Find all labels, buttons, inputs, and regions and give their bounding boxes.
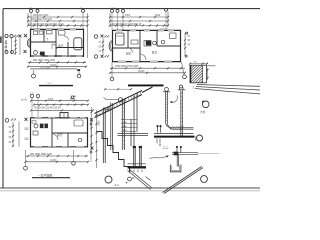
plan1 fixture cabinet — [59, 31, 66, 36]
stair outer dim diamonds — [90, 123, 92, 125]
svg-text:1500 2400 2700 150: 1500 2400 2700 150 — [31, 19, 53, 21]
plan1 fixture sink — [34, 31, 38, 35]
plan1 partition v1 — [43, 29, 45, 42]
plan2 right dim vertical — [184, 33, 186, 56]
plan2 right sq bubble bottom — [185, 55, 187, 57]
plan1 left axis bubbles row2 — [5, 51, 8, 54]
hatch detail right dim tick — [207, 68, 209, 80]
svg-text:3000: 3000 — [155, 15, 161, 17]
plan1 title end blob — [77, 69, 80, 71]
det1 slab top — [154, 133, 194, 135]
plan3 left dim verticals — [13, 122, 19, 148]
plan1 top dim line 3 — [28, 25, 88, 27]
plan2 bottom bubble left — [110, 77, 114, 81]
plan2 partition h2 — [157, 45, 181, 47]
plan2 bottom bubble right — [183, 75, 187, 79]
hatch detail rect — [190, 65, 207, 83]
stair detail tiny circle — [128, 177, 132, 181]
left edge blob — [0, 37, 2, 44]
svg-text:10200: 10200 — [50, 160, 57, 162]
det2 dark blob — [174, 152, 178, 155]
plan1 bottom bubble stems — [34, 70, 80, 74]
svg-text:10200: 10200 — [50, 65, 57, 67]
plan3 wall left — [30, 118, 32, 148]
svg-text:1:100: 1:100 — [46, 83, 52, 85]
det1 pipe pair A with bend — [166, 92, 194, 127]
plan3 bottom dim line1 — [26, 155, 89, 157]
svg-text:1-1: 1-1 — [115, 183, 120, 187]
fan line 2 — [196, 87, 260, 91]
svg-text:卄: 卄 — [159, 142, 162, 147]
plan2 dim edges — [110, 13, 168, 27]
plan1 left axis bubbles row1 — [5, 34, 8, 37]
plan2 fixture wc circle — [161, 40, 165, 44]
plan3 title underline — [32, 177, 70, 179]
stair mid lines — [118, 134, 149, 136]
plan3 dark unit — [40, 124, 43, 128]
stair wall colA2 — [111, 103, 113, 151]
plan1 left dim verticals — [12, 37, 21, 55]
fan line 1 — [197, 85, 260, 87]
plan1 title bar — [39, 85, 73, 87]
hatch detail left edge thick — [190, 65, 192, 83]
plan3 bottom-right bubble stem — [73, 150, 75, 162]
plan1 dim edge verticals — [28, 13, 88, 58]
plan2 right sq bubble top — [186, 32, 188, 34]
plan3 right X mark — [91, 147, 94, 150]
plan3 partition h1 — [52, 132, 88, 134]
plan3 right X — [90, 118, 93, 121]
plan3 bottom-right bubble — [72, 162, 76, 166]
plan1 wall top windows — [34, 28, 76, 30]
hatch detail top-right line — [207, 65, 216, 67]
plan3 wall top — [30, 117, 88, 119]
det1 pair A ladder ticks — [165, 94, 167, 121]
plan2 fixture bed — [116, 33, 125, 45]
svg-text:3300: 3300 — [125, 15, 131, 17]
plan3 bottom-left bubble — [24, 166, 28, 170]
plan2 left bay arc — [109, 41, 112, 52]
sheet outer faint line — [0, 190, 260, 192]
stair outer dim — [90, 118, 92, 162]
plan1 bottom bubble right — [77, 74, 81, 78]
plan1 fixture range — [47, 31, 53, 34]
det1 ticks below slab — [157, 138, 160, 143]
stair left dim line — [96, 110, 98, 168]
svg-text:1 2: 1 2 — [30, 92, 34, 96]
svg-text:90 150 90 120 90 150 90: 90 150 90 120 90 150 90 — [34, 107, 61, 110]
stair col C lines — [131, 93, 137, 147]
detail bubble C — [201, 176, 208, 183]
plan1 top dim line 1 — [28, 16, 88, 18]
det1 slab end tick — [195, 137, 197, 141]
stair stringer — [95, 87, 153, 118]
plan3 top dim line2 — [34, 104, 88, 106]
plan2 top dim line1 — [110, 16, 168, 18]
plan1 wall bottom — [30, 55, 84, 57]
svg-text:厨房: 厨房 — [126, 52, 132, 56]
plan2 fixture sink — [170, 33, 177, 39]
det2 left small dash — [146, 177, 151, 181]
plan1 partition v3 — [67, 42, 69, 57]
plan3 top protrusion — [60, 113, 68, 119]
plan2 fixture circle — [153, 41, 157, 45]
fan line 3 — [195, 89, 260, 94]
plan1 fixture toilet — [34, 51, 38, 55]
plan2 wall top — [112, 29, 181, 31]
det2 slab lines — [172, 153, 198, 155]
svg-text:客厅: 客厅 — [58, 44, 64, 48]
stair base slab — [128, 163, 147, 165]
plan2 left dim vertical — [102, 38, 104, 55]
plan3 right room marks — [74, 120, 83, 126]
plan3 partition v2 — [67, 133, 69, 148]
stair wall colA — [103, 108, 110, 163]
plan2 bottom bubble stems — [112, 62, 184, 77]
plan1 door arc 1 — [52, 44, 57, 49]
plan3 axis bubbles top — [30, 94, 33, 97]
stair stringer hatch — [96, 92, 141, 118]
hatch detail inner boundary — [202, 65, 204, 83]
plan1 left bay arc — [28, 39, 31, 48]
plan3 wall bottom — [30, 146, 88, 148]
det1 wall pair B — [181, 90, 183, 136]
det2 break diagonal — [163, 167, 204, 194]
sheet left border — [2, 9, 4, 188]
plan3 bottom dim line2 — [26, 161, 89, 163]
hatch detail top dim — [190, 63, 209, 65]
det1 slab bottom thick — [154, 136, 195, 138]
svg-text:900 2100 1800: 900 2100 1800 — [33, 15, 49, 17]
plan3 partition v1 — [51, 118, 53, 148]
plan1 fixture dark unit — [40, 52, 45, 56]
plan1 axis bubble right — [82, 9, 85, 12]
stair col B — [122, 99, 124, 151]
svg-text:90 150 90 120 1200 900 15: 90 150 90 120 1200 900 15 — [112, 23, 142, 26]
plan1 door arc 2 — [64, 36, 69, 41]
det1 cap B posts — [180, 87, 183, 89]
stair base ticks — [130, 170, 142, 173]
plan2 dark unit — [146, 41, 151, 46]
plan2 wall left — [112, 30, 114, 62]
det2 posts with caps — [177, 148, 181, 153]
det2 downpipe — [177, 155, 179, 167]
det1 cap B — [178, 89, 186, 91]
plan1 partition h2 — [56, 47, 84, 49]
svg-text:1 2 3: 1 2 3 — [110, 7, 116, 11]
plan1 bubble stems — [31, 13, 83, 30]
stair base post 2 — [140, 148, 142, 166]
svg-text:一层平面图: 一层平面图 — [38, 174, 52, 178]
svg-text:2700: 2700 — [70, 99, 76, 101]
plan1 title underline — [30, 68, 77, 70]
plan2 top dim line3 — [110, 25, 168, 27]
svg-text:±0.00: ±0.00 — [21, 99, 28, 102]
plan2 door arc2 — [128, 48, 133, 53]
plan1 wall right — [83, 29, 85, 57]
svg-text:90 120 90 150 90 120 900 120 9: 90 120 90 150 90 120 900 120 9 — [29, 23, 64, 26]
stair landing slab bar — [128, 84, 164, 86]
sheet top border — [3, 8, 260, 10]
stair top dim line — [105, 88, 131, 90]
plan3 right dim vertical — [91, 107, 93, 150]
svg-text:1500: 1500 — [98, 120, 101, 126]
plan3 bubble stems — [32, 98, 38, 118]
plan1 partition v2 — [55, 29, 57, 57]
det1 posts left — [158, 127, 161, 133]
svg-text:卧室: 卧室 — [152, 51, 158, 55]
stair base post 1 — [134, 148, 136, 166]
plan1 partition h1 — [30, 41, 56, 43]
svg-text:大样: 大样 — [200, 110, 206, 114]
stair leader circle — [118, 98, 122, 102]
det2 S leader — [150, 156, 169, 159]
stair steps — [97, 132, 130, 173]
svg-text:900 1800 1500 2100: 900 1800 1500 2100 — [30, 153, 53, 156]
plan3 left bubble — [5, 119, 9, 123]
det1 top circle — [165, 88, 169, 92]
detail bubble A — [202, 101, 209, 108]
plan3 wall right — [87, 118, 89, 148]
stair leader line — [106, 98, 118, 100]
plan2 wall right — [180, 30, 182, 62]
plan2 right lower bubble — [180, 85, 183, 88]
svg-text:客厅: 客厅 — [57, 133, 63, 137]
plan3 top dim line1 — [31, 100, 88, 102]
plan2 partition v1 — [127, 30, 129, 48]
plan3 top-right small bubble — [71, 96, 74, 99]
plan3 fixture wc — [34, 124, 38, 128]
svg-text:1 2: 1 2 — [29, 7, 33, 11]
plan1 wall bottom windows — [34, 55, 82, 57]
svg-text:900 1800 1500 2100: 900 1800 1500 2100 — [33, 59, 56, 62]
plan2 partition h1 — [112, 47, 140, 49]
plan3 bottom-left bubble stem — [25, 150, 27, 166]
plan2 left bubble row1 — [94, 35, 97, 38]
plan1 top dim line 2 — [28, 20, 88, 22]
plan1 outer wall top — [30, 28, 84, 30]
plan2 bubble stems — [112, 11, 166, 30]
det1 leader hook — [170, 96, 177, 103]
plan2 partition v2 — [139, 30, 141, 62]
det1 pipe cross ticks — [170, 126, 184, 130]
svg-text:丄丄: 丄丄 — [163, 144, 169, 149]
plan2 fixture counter1 — [131, 40, 138, 44]
det2 slab gray extension — [198, 153, 220, 155]
plan3 left window sills — [25, 128, 29, 139]
plan3 door arc — [52, 134, 58, 140]
hatch detail hatching — [190, 65, 203, 83]
svg-text:10200: 10200 — [138, 71, 145, 73]
plan2 bottom dim line2 — [110, 72, 185, 74]
plan2 bottom dim line1 — [110, 67, 185, 69]
det1 cap A — [163, 91, 170, 93]
plan1 bottom dim line1 — [28, 61, 86, 63]
sheet bottom border — [0, 187, 260, 189]
plan1 axis bubble 1 — [30, 9, 33, 12]
plan2 door arc1 — [140, 54, 146, 60]
plan2 wall bottom — [112, 61, 181, 63]
stair break diagonal — [128, 170, 153, 190]
detail bubble B — [197, 135, 203, 141]
plan2 left bubble row2 — [94, 55, 97, 58]
detail bubble A tick — [202, 101, 204, 103]
plan2 partition v3 — [156, 30, 158, 46]
stair detail bubble — [105, 176, 112, 183]
det2 gutter U — [170, 165, 181, 172]
plan1 bottom dim line2 — [28, 66, 86, 68]
plan1 axis bubble 2 — [36, 9, 39, 12]
plan2 fixture counter2 — [144, 41, 151, 47]
plan1 fixture tub — [74, 38, 82, 50]
plan1 bottom bubble left — [32, 74, 36, 78]
svg-text:3300: 3300 — [48, 99, 54, 101]
plan1 wall left — [30, 29, 32, 57]
plan2 top dim line2 — [110, 20, 168, 22]
plan3 small fixture — [32, 121, 36, 124]
plan2 axis bubbles top — [111, 9, 114, 12]
plan3 top dim line3 — [31, 109, 93, 111]
plan1 fixture counter — [39, 31, 43, 34]
plan3 fixture sink — [33, 131, 38, 135]
stair mid dim ladder — [121, 120, 138, 132]
